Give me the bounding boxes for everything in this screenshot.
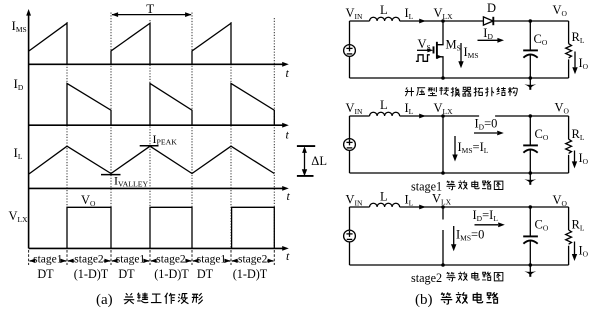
capacitor CO (circuit 1): [529, 21, 531, 50]
current arrow IO (circuit 1): [572, 52, 577, 75]
stage interval arrows: [29, 259, 274, 263]
svg-text:ID: ID: [14, 76, 24, 92]
svg-text:RL: RL: [572, 127, 585, 142]
I_MS time axis: [29, 62, 289, 67]
svg-text:t: t: [287, 189, 291, 203]
svg-text:IVALLEY: IVALLEY: [114, 174, 149, 189]
svg-text:RL: RL: [572, 30, 585, 45]
svg-text:DT: DT: [197, 267, 214, 281]
I_PEAK level tick: [140, 145, 159, 147]
voltage source VIN (circuit 3): [344, 230, 356, 242]
svg-text:T: T: [146, 1, 154, 16]
voltage source VIN (circuit 2): [344, 139, 356, 151]
ground (circuit 3): [529, 265, 531, 272]
svg-text:IMS: IMS: [464, 45, 479, 60]
svg-text:stage1: stage1: [33, 253, 63, 265]
I_L time axis: [29, 186, 289, 191]
svg-text:ID=0: ID=0: [475, 117, 498, 132]
stage boundary dotted lines: [67, 13, 274, 249]
svg-text:IPEAK: IPEAK: [153, 132, 178, 147]
inductor L (circuit 3): [370, 203, 400, 207]
svg-text:VS: VS: [418, 37, 431, 52]
circuit 2 wire: bottom rail: [350, 172, 569, 174]
svg-text:IO: IO: [579, 244, 589, 259]
svg-text:VLX: VLX: [9, 209, 29, 224]
diode D (circuit 1): [483, 17, 493, 25]
circuit 3 wire: right rail: [568, 207, 570, 265]
I_VALLEY level tick: [101, 174, 121, 176]
svg-text:RL: RL: [572, 218, 585, 233]
current arrow IMS=IL (circuit 2): [452, 136, 457, 162]
gate pulse symbol (circuit 1): [416, 55, 430, 62]
svg-text:VLX: VLX: [432, 192, 452, 207]
I_MS waveform: [29, 23, 231, 64]
capacitor CO (circuit 2): [529, 116, 531, 145]
open switch wire MS-off (circuit 3): [442, 207, 444, 265]
current arrow IMS (circuit 1): [458, 43, 463, 68]
node junction switch-bottom (circuit 3): [441, 263, 445, 267]
resistor RL (circuit 1): [566, 44, 572, 58]
svg-text:CO: CO: [535, 218, 549, 233]
svg-text:IL: IL: [405, 193, 414, 208]
labels DT and (1-D)T: [37, 267, 267, 281]
svg-text:(1-D)T: (1-D)T: [154, 267, 189, 281]
svg-text:L: L: [380, 3, 388, 17]
node junction at CO top (circuit 2): [529, 114, 533, 118]
ground (circuit 2): [529, 173, 531, 180]
node junction at CO top (circuit 3): [529, 205, 533, 209]
node junction mosfet-source (circuit 1): [441, 76, 445, 80]
node junction VLX (circuit 3): [441, 205, 445, 209]
svg-text:stage2: stage2: [74, 253, 104, 265]
current arrow ID (circuit 1): [478, 38, 505, 43]
current arrow IL (circuit 1): [419, 19, 426, 24]
current arrow IL (circuit 2): [419, 114, 426, 119]
svg-text:VO: VO: [555, 101, 570, 116]
svg-text:CO: CO: [534, 32, 548, 47]
circuit 2 wire: right rail: [568, 116, 570, 173]
circuit 3 wire: bottom rail: [350, 264, 569, 266]
node junction CO-ground (circuit 2): [529, 171, 533, 175]
circuit 1 wire: left rail: [349, 21, 351, 78]
node junction at VO (circuit 1): [529, 19, 533, 23]
svg-text:MS: MS: [446, 38, 461, 53]
svg-text:VO: VO: [553, 193, 568, 208]
capacitor CO (circuit 3): [529, 207, 531, 236]
svg-text:(1-D)T: (1-D)T: [233, 267, 268, 281]
svg-text:(a): (a): [96, 292, 113, 308]
node junction switch-bottom (circuit 2): [441, 171, 445, 175]
circuit 1 wire: right rail: [568, 21, 570, 78]
ripple dimension arrow: [297, 146, 315, 176]
circuit 1 wire: bottom rail: [350, 77, 569, 79]
svg-text:VLX: VLX: [434, 101, 454, 116]
svg-text:VIN: VIN: [346, 6, 364, 21]
resistor RL (circuit 2): [566, 139, 572, 153]
svg-text:ΔL: ΔL: [311, 154, 327, 168]
svg-text:IO: IO: [579, 56, 589, 71]
svg-text:IMS: IMS: [12, 18, 27, 34]
svg-text:IMS=0: IMS=0: [456, 227, 484, 242]
labels stage1/stage2: [33, 253, 268, 265]
period dimension arrow T: [112, 12, 192, 17]
svg-text:VO: VO: [81, 193, 96, 208]
node junction VLX (circuit 2): [441, 114, 445, 118]
node junction CO-ground (circuit 1): [529, 76, 533, 80]
inductor L (circuit 2): [370, 112, 400, 116]
current arrow ID=IL (circuit 3): [475, 222, 505, 227]
I_L waveform: [29, 146, 274, 174]
svg-text:VIN: VIN: [346, 193, 364, 208]
svg-text:stage1: stage1: [116, 253, 146, 265]
svg-text:stage2: stage2: [156, 253, 186, 265]
svg-text:IL: IL: [405, 101, 414, 116]
node junction CO-ground (circuit 3): [529, 263, 533, 267]
node junction VLX (circuit 1): [441, 19, 445, 23]
svg-text:DT: DT: [37, 267, 54, 281]
svg-text:VIN: VIN: [346, 101, 364, 116]
resistor RL (circuit 3): [566, 230, 572, 244]
circuit 1 wire: top rail: [350, 20, 569, 22]
svg-text:t: t: [286, 66, 290, 80]
circuit 2 wire: left rail: [349, 116, 351, 173]
svg-text:(1-D)T: (1-D)T: [74, 267, 109, 281]
current arrow IO (circuit 3): [572, 242, 577, 262]
svg-text:IO: IO: [579, 151, 589, 166]
svg-text:ID=IL: ID=IL: [473, 208, 499, 223]
svg-text:stage1: stage1: [197, 253, 227, 265]
svg-text:stage2: stage2: [238, 253, 268, 265]
ground (circuit 1): [529, 78, 531, 85]
circuit 3 wire: top rail: [350, 206, 569, 208]
voltage source VIN (circuit 1): [344, 45, 356, 57]
inductor L (circuit 1): [370, 17, 400, 21]
I_D time axis: [29, 123, 289, 128]
svg-text:VO: VO: [553, 3, 568, 18]
svg-text:t: t: [286, 249, 290, 263]
current arrow IMS=0 (circuit 3): [451, 226, 456, 251]
current arrow IO (circuit 2): [572, 151, 577, 169]
svg-text:IMS=IL: IMS=IL: [458, 140, 489, 155]
current arrow IL (circuit 3): [419, 205, 426, 210]
svg-text:ID: ID: [483, 26, 493, 41]
svg-text:L: L: [380, 190, 388, 204]
mosfet MS (circuit 1): [417, 21, 443, 78]
svg-text:(b): (b): [415, 292, 433, 308]
svg-text:t: t: [286, 128, 290, 142]
current arrow ID=0 (circuit 2): [474, 131, 504, 136]
caption: boost converter topology structure: [405, 87, 414, 96]
stage row dashed dividers: [29, 250, 275, 265]
svg-text:L: L: [380, 98, 388, 112]
svg-text:IL: IL: [14, 145, 23, 161]
svg-text:VLX: VLX: [434, 6, 454, 21]
waveform vertical axis: [26, 9, 31, 248]
svg-text:DT: DT: [118, 267, 135, 281]
closed switch wire MS-on (circuit 2): [442, 116, 444, 173]
V_LX waveform: [67, 207, 274, 248]
circuit 3 wire: left rail: [349, 207, 351, 265]
V_LX time axis: [29, 246, 289, 251]
svg-text:IL: IL: [405, 6, 414, 21]
I_D waveform: [67, 83, 274, 125]
circuit 2 wire: top rail with open diode gap: [350, 115, 569, 117]
svg-text:D: D: [487, 1, 496, 15]
svg-text:CO: CO: [535, 127, 549, 142]
svg-text:stage2: stage2: [411, 271, 442, 285]
